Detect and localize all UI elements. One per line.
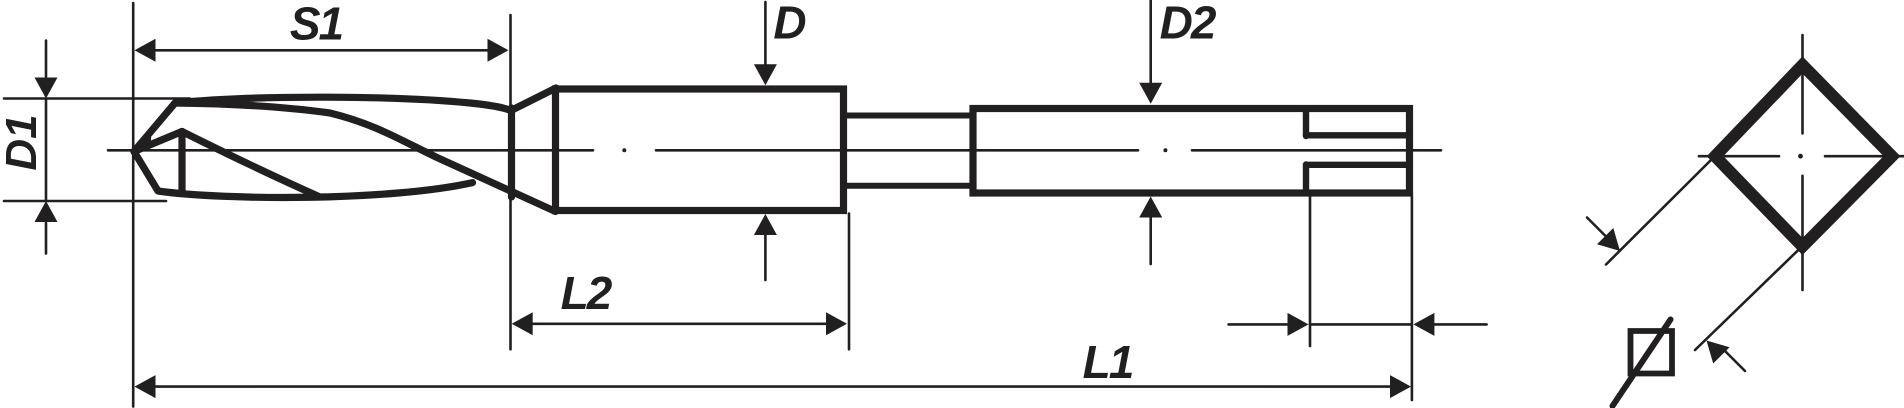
D arrowhead down (754, 64, 777, 85)
L1 dimension line (150, 385, 1396, 388)
D2 arrowhead up (1139, 197, 1162, 218)
D1 dimension line across (45, 99, 48, 202)
body rectangle D section (556, 89, 844, 211)
square side extension line lower (1695, 247, 1801, 350)
drill point inner vertical (178, 132, 185, 194)
centerline dot left (622, 148, 626, 152)
S1 dimension line (153, 49, 490, 52)
D2 arrow bottom stem (1149, 217, 1152, 264)
wire centerline main (108, 149, 1441, 152)
svg-text:L1: L1 (1083, 336, 1133, 388)
L2 arrowhead left (512, 312, 533, 335)
svg-text:D: D (773, 0, 806, 49)
D1 arrowhead up (35, 201, 58, 222)
square symbol slash (1613, 320, 1671, 407)
D1 bottom extension line (4, 200, 166, 203)
S1 arrowhead right (488, 39, 509, 62)
drill flute diagonal (175, 103, 556, 212)
D1 dimension arrow top stem (45, 41, 48, 77)
drill lip runout line (182, 132, 320, 198)
tang square horizontal marks (1306, 135, 1407, 165)
L1 arrowhead right (1390, 375, 1411, 398)
tang small dimension lines (1229, 323, 1487, 326)
shaft bottom line (846, 183, 973, 189)
square cross-section diamond (1715, 65, 1892, 247)
drill collar left edge (508, 108, 515, 197)
L2 arrowhead right (826, 312, 847, 335)
square side arrowhead lower (1707, 341, 1730, 364)
square side extension line upper (1606, 157, 1714, 265)
D1 arrowhead down (35, 78, 58, 99)
square symbol box (1631, 331, 1673, 374)
D1 top extension line (4, 97, 190, 100)
centerline dot right (1163, 148, 1167, 152)
S1 arrowhead left (135, 39, 156, 62)
L1 arrowhead left (135, 375, 156, 398)
tang small dimension left extension line (1309, 197, 1312, 347)
square side arrow tail upper (1587, 218, 1607, 238)
drill lower flank and bottom edge (134, 152, 473, 198)
D1 dimension arrow bottom stem (45, 223, 48, 254)
S1/L1 left extension line (132, 3, 135, 407)
diamond center dot (1798, 154, 1803, 159)
drill tip solid point (134, 133, 152, 152)
tang square vertical marks (1303, 109, 1309, 194)
D arrow top stem (764, 2, 767, 65)
shaft top line (846, 113, 973, 119)
svg-text:D2: D2 (1160, 0, 1217, 49)
D2 arrowhead down (1139, 83, 1162, 104)
drill upper flank and top edge and collar slant (134, 88, 556, 152)
tang dimension arrowhead right (1288, 313, 1309, 336)
L2 dimension line (520, 322, 838, 325)
square side arrow tail lower (1722, 348, 1745, 371)
square side arrowhead upper (1597, 228, 1620, 251)
svg-text:L2: L2 (561, 267, 613, 319)
tang dimension arrowhead left (1413, 313, 1434, 336)
diamond vertical centerline (1801, 35, 1804, 290)
L2 right extension line (848, 214, 851, 350)
svg-text:D1: D1 (0, 114, 46, 170)
D arrow bottom stem (764, 235, 767, 280)
L1 right extension line (1411, 197, 1414, 401)
D2 section rectangle (973, 109, 1410, 194)
diamond horizontal centerline (1699, 155, 1904, 158)
drill tip to vertical line (134, 132, 182, 152)
svg-text:S1: S1 (290, 0, 343, 49)
D2 arrow top stem (1149, 0, 1152, 83)
D arrowhead up (754, 214, 777, 235)
S1/L2 shared extension line (509, 15, 512, 349)
